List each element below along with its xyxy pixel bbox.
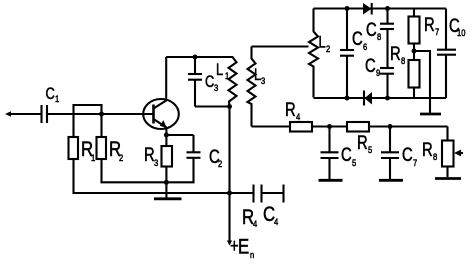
node C6 top <box>345 6 350 11</box>
resistor R3 <box>165 135 167 146</box>
resistor R2 <box>97 137 107 159</box>
resistor R1 <box>69 137 79 159</box>
svg-text:5: 5 <box>368 144 372 155</box>
capacitor C8 <box>386 9 388 24</box>
node C9 bottom <box>385 96 390 101</box>
svg-text:R: R <box>144 144 155 165</box>
svg-text:R: R <box>285 99 296 120</box>
svg-text:4: 4 <box>253 218 257 229</box>
wire C1 to base <box>48 113 154 115</box>
node C6 bottom <box>345 96 350 101</box>
tap wire to ground <box>414 51 430 98</box>
capacitor C6 <box>346 9 348 51</box>
node C7 <box>388 124 393 129</box>
capacitor C3 <box>194 57 196 74</box>
ground C5 <box>319 179 343 182</box>
svg-text:C: C <box>365 55 376 76</box>
svg-text:2: 2 <box>218 158 222 169</box>
capacitor C1 <box>40 105 42 123</box>
svg-text:1: 1 <box>225 70 229 81</box>
svg-text:8: 8 <box>377 31 381 42</box>
collector wire up <box>165 57 167 100</box>
svg-text:L: L <box>254 67 261 85</box>
svg-text:5: 5 <box>352 157 356 168</box>
emitter node <box>164 133 169 138</box>
resistor R7 <box>413 9 415 17</box>
svg-text:L: L <box>216 62 223 80</box>
emitter wire down <box>165 127 167 135</box>
bottom rail <box>314 97 447 99</box>
supply +En arrow <box>228 193 230 241</box>
node bus junction <box>227 191 232 196</box>
svg-text:R: R <box>390 43 401 64</box>
svg-text:n: n <box>250 249 254 260</box>
svg-text:R: R <box>357 132 368 153</box>
svg-text:C: C <box>46 86 56 104</box>
inductor L1 <box>222 57 237 107</box>
svg-text:3: 3 <box>214 82 218 93</box>
capacitor C4 <box>230 192 254 194</box>
wire L3 bottom to R4 <box>252 125 291 127</box>
svg-text:C: C <box>352 28 363 49</box>
svg-text:3: 3 <box>261 75 265 86</box>
svg-text:6: 6 <box>363 41 367 52</box>
diode VD1 <box>363 3 372 15</box>
svg-text:1: 1 <box>91 152 95 163</box>
svg-text:2: 2 <box>119 152 123 163</box>
wire emitter to C2 <box>166 134 193 136</box>
svg-text:C: C <box>341 144 352 165</box>
node C5 <box>327 124 332 129</box>
svg-text:R: R <box>424 14 435 35</box>
svg-text:3: 3 <box>154 157 158 168</box>
input terminal arrow <box>5 111 11 117</box>
svg-text:C: C <box>366 19 377 40</box>
ground C7 <box>379 179 403 182</box>
tank bottom wire <box>195 105 230 107</box>
svg-text:8: 8 <box>401 55 405 66</box>
svg-text:E: E <box>238 236 249 259</box>
svg-text:R: R <box>422 139 433 160</box>
wire R1 bottom <box>74 159 230 193</box>
capacitor C2 <box>192 135 194 152</box>
capacitor C10 <box>445 9 447 50</box>
diode VD2 <box>365 92 373 105</box>
wire input to C1 <box>10 113 41 115</box>
resistor R8 output (variable) <box>446 127 448 141</box>
wire tank bottom to bus <box>228 107 230 194</box>
top rail <box>314 7 447 9</box>
node tank top <box>193 55 198 60</box>
node C8 top <box>385 6 390 11</box>
inductor L3 <box>248 47 256 127</box>
capacitor C7 <box>389 127 391 153</box>
svg-text:7: 7 <box>435 26 439 37</box>
wire R2 bottom to C2 bottom <box>102 158 194 182</box>
svg-text:7: 7 <box>413 157 417 168</box>
R3 bottom wire <box>165 167 167 194</box>
svg-text:C: C <box>205 74 215 92</box>
node divider tap <box>412 49 417 54</box>
resistor R8 divider <box>409 60 420 88</box>
resistor (staple) over base wire <box>74 105 102 137</box>
resistor R4 <box>290 122 312 132</box>
output terminal bar <box>282 185 284 203</box>
transistor VT1 <box>143 99 179 129</box>
inductor L2 <box>309 9 318 98</box>
svg-text:C: C <box>402 144 413 165</box>
ground stub top right <box>429 98 431 113</box>
ground <box>165 193 167 198</box>
capacitor C5 <box>328 127 330 153</box>
svg-text:9: 9 <box>376 67 380 78</box>
ground R8 <box>446 167 448 178</box>
svg-text:L: L <box>319 34 326 52</box>
wire L3 top to L2 <box>252 45 309 47</box>
resistor R5 <box>347 122 369 132</box>
wire R5 to right <box>369 125 448 127</box>
svg-text:10: 10 <box>457 27 466 38</box>
capacitor C9 <box>386 29 388 68</box>
node tank bottom <box>227 104 232 109</box>
svg-text:1: 1 <box>55 93 59 104</box>
svg-text:2: 2 <box>326 43 330 54</box>
node R3/R2C2 line <box>164 180 169 185</box>
node at base divider <box>99 112 104 117</box>
tank top wire <box>166 56 222 58</box>
wire R4 to R5 <box>312 125 347 127</box>
svg-text:4: 4 <box>274 216 278 227</box>
svg-text:8: 8 <box>433 151 437 162</box>
svg-text:4: 4 <box>296 111 300 122</box>
